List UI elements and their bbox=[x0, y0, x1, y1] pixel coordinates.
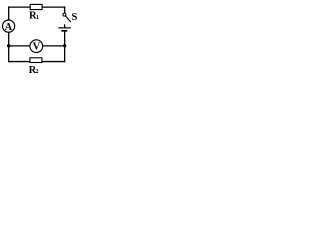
resistor R1 (box) bbox=[30, 4, 42, 9]
wire top-left to R1 (top wire left segment) bbox=[8, 6, 30, 8]
wire R2 to bottom-right corner (bottom wire right segment) bbox=[42, 61, 65, 63]
wire left side upper (corner to ammeter) bbox=[8, 6, 10, 20]
svg-text:V: V bbox=[33, 42, 41, 53]
battery positive plate (long) bbox=[58, 27, 71, 29]
switch S contact (circle) bbox=[63, 13, 66, 16]
resistor R2 (box) bbox=[30, 58, 42, 63]
voltmeter V1 (circle) bbox=[30, 40, 43, 53]
wire R1 to top-right corner (top wire right segment) bbox=[42, 6, 65, 8]
node A (junction dot left, voltmeter tap) bbox=[7, 44, 10, 47]
wire voltmeter to node B (middle branch right segment) bbox=[42, 45, 64, 47]
svg-text:2: 2 bbox=[35, 68, 38, 75]
wire switch to battery positive plate bbox=[64, 24, 66, 28]
wire bottom-left corner to R2 (bottom wire left segment) bbox=[8, 61, 30, 63]
switch S blade (open) bbox=[66, 16, 71, 22]
ammeter A1 (circle) bbox=[3, 20, 15, 32]
battery negative plate (short) bbox=[61, 30, 67, 32]
node B (junction dot right, voltmeter tap) bbox=[63, 44, 66, 47]
svg-text:A: A bbox=[5, 22, 13, 33]
wire right side top (corner to switch contact) bbox=[64, 6, 66, 13]
wire node A to voltmeter (middle branch left segment) bbox=[9, 45, 31, 47]
wire battery negative plate to node B to bottom-right corner bbox=[64, 31, 66, 62]
svg-text:1: 1 bbox=[36, 14, 39, 21]
wire left side lower (ammeter to node A to bottom-left corner) bbox=[8, 32, 10, 62]
svg-text:S: S bbox=[72, 12, 78, 23]
